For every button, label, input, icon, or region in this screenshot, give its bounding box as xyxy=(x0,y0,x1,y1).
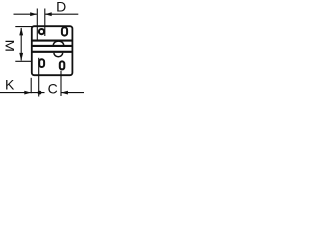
dome boss above rib B xyxy=(53,41,63,45)
dimension C: shared dot terminator xyxy=(38,91,42,95)
dimension D: extension line right xyxy=(44,9,46,37)
hole, top-left round xyxy=(39,29,44,34)
horizontal rib line C xyxy=(32,51,72,53)
dimension M: up arrow xyxy=(19,27,23,35)
svg-text:M: M xyxy=(3,39,17,51)
bottom extension line from part left edge xyxy=(30,78,32,93)
horizontal rib line B xyxy=(32,45,72,47)
svg-text:D: D xyxy=(56,0,66,14)
dimension M: vertical dim line xyxy=(20,28,22,61)
dimension M: bottom extension line xyxy=(15,60,31,62)
bowl recess below rib C xyxy=(54,53,63,57)
part body outline xyxy=(32,26,73,75)
dimension C: right dim line with left-pointing outside arrow xyxy=(61,92,84,94)
dimension M: top extension line xyxy=(15,26,33,28)
hole, top-right slot xyxy=(62,27,67,35)
svg-text:C: C xyxy=(48,81,58,97)
dimension K: dim line from left edge with right-pointing arrow xyxy=(0,92,45,94)
bottom extension line from bottom-right slot xyxy=(60,71,62,96)
hole, bottom-left slot xyxy=(39,59,44,67)
hole, bottom-right slot xyxy=(60,61,65,69)
dimension D: extension line left xyxy=(36,9,38,40)
horizontal rib line A xyxy=(32,40,72,42)
dimension D: right dim line with left-pointing arrow xyxy=(45,13,78,15)
dimension D: left dim line with right-pointing arrow xyxy=(14,13,37,15)
dimension M: down arrow xyxy=(19,53,23,61)
bottom extension line from bottom-left slot xyxy=(38,58,40,97)
svg-text:K: K xyxy=(5,77,15,93)
